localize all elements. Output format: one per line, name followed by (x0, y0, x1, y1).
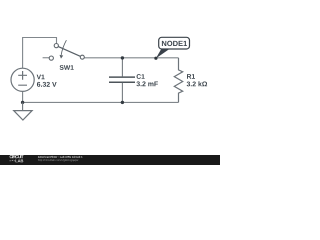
capacitor C1 plates (109, 76, 135, 78)
junction node V1/ground (21, 101, 24, 104)
voltage source V1 (11, 68, 34, 91)
switch blade (58, 47, 80, 57)
capacitor C1 bottom lead (121, 83, 123, 103)
capacitor C1 top lead (121, 58, 123, 77)
junction node top (C1/top wire) (121, 56, 124, 59)
wire: bottom wire (23, 101, 179, 103)
label R1 (187, 74, 195, 79)
footer text line 1 (38, 156, 83, 158)
switch right terminal (80, 55, 84, 59)
resistor R1 (174, 58, 182, 103)
label C1 (137, 74, 145, 79)
CircuitLab logo (10, 155, 24, 158)
label SW1 (60, 65, 74, 70)
label V1 (37, 75, 45, 80)
switch actuator arrow (61, 40, 66, 55)
ground symbol (14, 111, 32, 120)
wire: V1 bottom lead (22, 91, 24, 102)
junction node bottom (C1/bottom wire) (121, 101, 124, 104)
switch SW1 top terminal (54, 44, 58, 48)
wire: right wire from switch right terminal to R1 top (84, 57, 178, 59)
node NODE1 callout box (159, 37, 190, 49)
node NODE1 pointer (156, 49, 170, 59)
switch left throw stub (43, 57, 49, 59)
ground lead (22, 102, 24, 110)
switch left throw terminal (49, 56, 53, 60)
footer bar (0, 155, 220, 165)
wire: top-left loop from V1 top to switch top terminal (23, 38, 57, 69)
footer text line 2 (38, 159, 78, 161)
